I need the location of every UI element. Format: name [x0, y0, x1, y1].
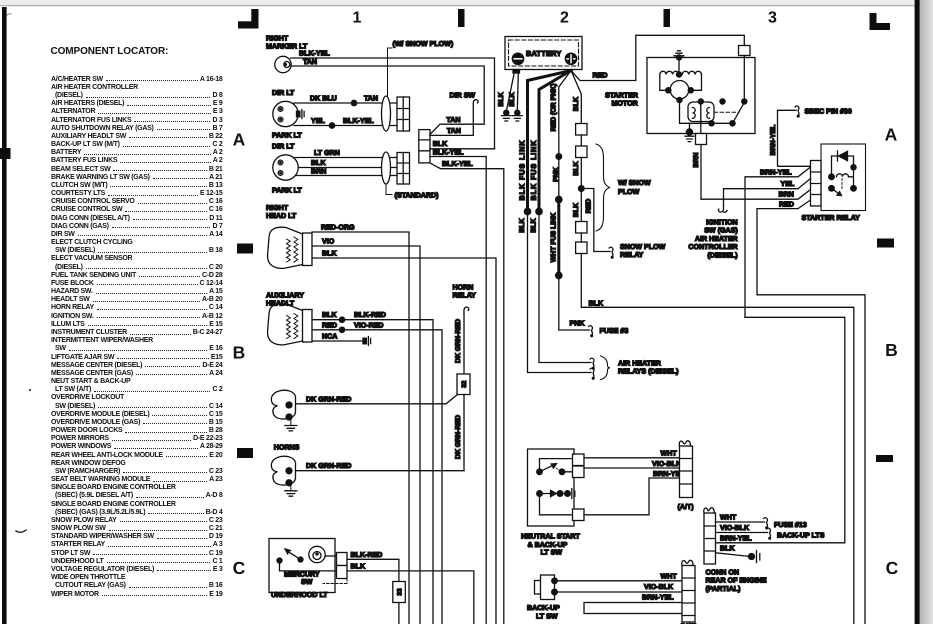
svg-text:BLK: BLK — [573, 203, 580, 217]
svg-text:BLK: BLK — [311, 159, 326, 167]
svg-text:C: C — [233, 558, 246, 578]
svg-text:BRN: BRN — [311, 168, 326, 176]
wire BLK-RED below 33 — [398, 603, 400, 624]
svg-text:PNK: PNK — [553, 167, 560, 182]
svg-text:BLK-YEL: BLK-YEL — [433, 149, 464, 157]
svg-text:B: B — [885, 340, 898, 360]
relay switch — [829, 186, 835, 192]
brace w/ snow plow — [596, 144, 610, 231]
svg-text:AIR HEATER: AIR HEATER — [618, 360, 661, 368]
ground horn 2 — [290, 484, 292, 490]
svg-text:2: 2 — [560, 10, 569, 27]
wire YEL / BLK-YEL — [294, 125, 397, 127]
switch 2 — [537, 491, 543, 497]
svg-text:DIR LT: DIR LT — [272, 89, 295, 97]
svg-text:BLK: BLK — [589, 299, 604, 307]
wire BLK to air heater relay 2 — [528, 212, 592, 373]
wire DK GRN-RED below 32 — [463, 395, 465, 471]
svg-text:BLK-YEL: BLK-YEL — [442, 160, 473, 168]
connector block dir/park upper — [397, 97, 410, 131]
ground starter bottom — [689, 123, 691, 131]
svg-text:DIR LT: DIR LT — [272, 143, 295, 151]
connector 32 — [457, 374, 470, 395]
svg-text:3: 3 — [768, 10, 777, 27]
svg-text:BRN: BRN — [693, 153, 700, 168]
wire BLK long run right — [581, 254, 854, 624]
starter relay connector — [811, 161, 822, 207]
connector underhood — [337, 553, 348, 566]
svg-text:TAN: TAN — [303, 58, 317, 66]
ground starter top — [674, 51, 684, 56]
svg-text:UNDERHOOD LT: UNDERHOOD LT — [271, 591, 328, 599]
svg-text:BRN-YEL: BRN-YEL — [760, 169, 792, 177]
svg-text:VIO-BLK: VIO-BLK — [652, 460, 682, 468]
fusible link WHT — [557, 200, 560, 276]
wire BLK head lt — [312, 258, 496, 624]
starter motor box — [647, 58, 755, 134]
motor armature — [670, 81, 689, 100]
wire BLK-RED mercury — [347, 559, 399, 581]
svg-text:RELAY: RELAY — [453, 292, 477, 300]
hook snow plow relay — [609, 247, 613, 256]
svg-text:C: C — [886, 558, 899, 578]
wire NCA — [312, 340, 363, 342]
svg-text:CONN ON: CONN ON — [706, 569, 740, 577]
svg-text:LT SW: LT SW — [541, 549, 563, 557]
registration tick top 2 — [664, 9, 671, 27]
wire RED into box — [739, 46, 751, 56]
svg-text:BLK: BLK — [509, 92, 516, 106]
left margin tick — [0, 148, 11, 159]
connector block dir sw — [419, 130, 430, 163]
inner tick left AB — [237, 244, 253, 254]
svg-text:PARK LT: PARK LT — [272, 187, 302, 195]
wire BRN starter to relay — [701, 145, 811, 200]
wire BLK to ground — [716, 553, 749, 557]
hook fuse 3 — [589, 326, 593, 335]
svg-text:TAN: TAN — [446, 116, 460, 124]
field coil left — [660, 71, 679, 74]
connector square 4 — [576, 242, 587, 254]
svg-text:SW: SW — [301, 578, 313, 586]
svg-text:RED: RED — [593, 72, 608, 80]
svg-text:BATTERY: BATTERY — [526, 49, 561, 58]
svg-text:RED: RED — [322, 321, 337, 329]
connector A/T — [680, 446, 693, 498]
wire BLK battery chain — [571, 71, 581, 124]
svg-text:W/ SNOW: W/ SNOW — [618, 179, 651, 187]
relay coil — [829, 174, 835, 180]
brace air heater relays — [601, 356, 611, 380]
lamp dir lt — [273, 101, 298, 126]
svg-text:MOTOR: MOTOR — [612, 99, 638, 107]
svg-text:BLK: BLK — [322, 311, 337, 319]
svg-text:WHT: WHT — [720, 514, 737, 522]
inner tick left BC — [237, 448, 253, 458]
lamp right head lt — [303, 233, 313, 266]
svg-text:SW (GAS): SW (GAS) — [704, 227, 738, 235]
svg-text:1: 1 — [353, 10, 362, 27]
switch contact fixed — [720, 99, 725, 104]
wire switch to connector — [280, 563, 337, 571]
svg-text:(DIESEL): (DIESEL) — [707, 252, 738, 260]
battery box — [505, 37, 582, 70]
svg-text:BACK-UP LTS: BACK-UP LTS — [777, 532, 825, 540]
svg-text:BACK-UP: BACK-UP — [527, 604, 560, 612]
svg-text:RELAYS (DIESEL): RELAYS (DIESEL) — [618, 368, 679, 376]
lamp underhood — [309, 546, 325, 562]
coil frame — [660, 75, 702, 91]
fusible link BLK 2 — [539, 71, 571, 212]
svg-text:REAR OF ENGINE: REAR OF ENGINE — [706, 577, 767, 585]
wire RED to snow plow relay — [581, 189, 610, 252]
page speck — [29, 389, 31, 391]
wire BLK-YEL dir sw 1 — [430, 157, 486, 624]
svg-text:RIGHT: RIGHT — [266, 204, 289, 212]
svg-text:32: 32 — [461, 380, 468, 388]
svg-text:BLK: BLK — [351, 562, 366, 570]
svg-text:VIO-BLK: VIO-BLK — [720, 524, 750, 532]
wire sw1 to conn A — [540, 459, 573, 472]
leader (STANDARD) — [386, 184, 392, 195]
connector square 2 — [576, 146, 587, 158]
svg-text:STARTER: STARTER — [605, 91, 638, 99]
svg-text:33: 33 — [396, 588, 403, 596]
handwritten mark left margin — [16, 530, 26, 532]
svg-text:BLK-RED: BLK-RED — [354, 311, 386, 319]
svg-text:YEL: YEL — [311, 117, 325, 125]
wire BLK mercury — [347, 571, 474, 624]
svg-text:BRN-YEL: BRN-YEL — [720, 534, 752, 542]
svg-text:PNK: PNK — [570, 320, 586, 328]
wire TAN to dir sw — [430, 107, 474, 136]
svg-text:TAN: TAN — [364, 95, 378, 103]
page top gray band — [0, 0, 933, 5]
svg-text:DK GRN-RED: DK GRN-RED — [306, 395, 351, 403]
wire BRN-YEL to SBEC pin 30 — [778, 110, 811, 166]
battery plus terminal — [565, 53, 576, 64]
ground battery 2 — [513, 116, 523, 121]
svg-text:CONTROLLER: CONTROLLER — [688, 243, 737, 251]
wire YEL ignition to relay — [724, 179, 811, 206]
hook air heater relay 2 — [590, 368, 594, 377]
lamp park lt — [273, 155, 298, 180]
connector conn on rear of engine — [704, 513, 716, 564]
svg-text:BLK: BLK — [498, 92, 505, 106]
wire node — [580, 135, 582, 146]
svg-text:BLK: BLK — [573, 161, 580, 175]
svg-text:B: B — [233, 343, 246, 363]
inner tick right BC — [876, 455, 893, 462]
ground battery 1 — [502, 116, 512, 121]
corner registration mark L — [870, 13, 877, 30]
wire DK BLU / TAN — [294, 102, 397, 104]
connector block dir/park lower — [397, 153, 410, 185]
svg-text:FUSE #13: FUSE #13 — [774, 521, 807, 529]
wire BRN-YEL back-up (sheathed) — [584, 603, 683, 614]
svg-text:BLK: BLK — [573, 97, 580, 111]
svg-text:WHT FUS LINK: WHT FUS LINK — [551, 213, 558, 262]
svg-text:DK GRN-RED: DK GRN-RED — [455, 319, 462, 363]
svg-text:WHT: WHT — [661, 572, 678, 580]
svg-text:BLK: BLK — [531, 218, 538, 232]
svg-text:RED: RED — [779, 201, 794, 209]
right black bar — [915, 0, 920, 624]
solenoid — [688, 102, 714, 122]
svg-text:VIO: VIO — [322, 238, 335, 246]
wire to field coils — [678, 58, 680, 75]
wire BLK battery ground 1 — [506, 73, 514, 112]
wire TAN marker to dir sw block — [291, 66, 484, 135]
hook to dir sw — [473, 100, 478, 107]
wire WHT to fuse 13 — [716, 521, 765, 523]
wire VIO-BLK back-up — [555, 591, 683, 593]
right gray page edge — [920, 0, 933, 624]
svg-text:FUSE #3: FUSE #3 — [600, 327, 629, 335]
connector squares neutral — [573, 454, 585, 466]
svg-text:RELAY: RELAY — [620, 251, 644, 259]
lamp right marker lt — [275, 56, 291, 72]
hook air heater relay 1 — [590, 358, 594, 367]
wire BRN-YEL run to conn rear engine — [716, 317, 845, 543]
svg-text:HORNS: HORNS — [274, 444, 300, 452]
wire BLK dir sw — [430, 148, 495, 150]
svg-text:VIO-RED: VIO-RED — [354, 321, 384, 329]
wire BRN park — [296, 175, 397, 177]
svg-text:BRN-YEL: BRN-YEL — [770, 125, 777, 156]
underhood lt box — [269, 539, 335, 593]
fusible link BLK 1 — [528, 71, 572, 212]
connector BRN bottom — [696, 134, 707, 145]
wire lamp to connector — [325, 555, 336, 557]
svg-text:(STANDARD): (STANDARD) — [395, 192, 440, 200]
svg-text:STARTER RELAY: STARTER RELAY — [802, 214, 861, 222]
wire DK GRN-RED to 32 — [463, 314, 465, 374]
svg-text:HORN: HORN — [453, 284, 474, 292]
svg-text:BLK: BLK — [322, 250, 337, 258]
svg-text:BLK-YEL: BLK-YEL — [299, 50, 330, 58]
wire DK GRN-RED horn 1 — [296, 395, 458, 404]
horn 2 — [271, 456, 295, 485]
dashed actuator link — [714, 111, 739, 113]
wire BLK park — [298, 167, 397, 169]
svg-text:(PARTIAL): (PARTIAL) — [706, 585, 742, 593]
horn 1 — [271, 390, 295, 419]
ground contact conn — [749, 554, 755, 560]
wire LT GRN — [295, 157, 397, 159]
svg-text:RIGHT: RIGHT — [266, 35, 289, 43]
registration tick top 1 — [458, 9, 465, 27]
starter relay box — [821, 144, 866, 211]
svg-text:RED: RED — [586, 199, 593, 214]
wire BLK to air heater relay 1 — [539, 212, 591, 363]
neutral start box — [528, 449, 575, 526]
wire RED relay long run — [757, 200, 865, 624]
switch arm — [733, 103, 745, 124]
svg-text:RED (OR PNK): RED (OR PNK) — [551, 84, 558, 132]
wire PNK to fuse 3 — [559, 276, 590, 331]
svg-text:TAN: TAN — [447, 127, 461, 135]
svg-text:NCA: NCA — [322, 333, 337, 341]
contact glyph dir lt — [297, 111, 300, 117]
svg-text:LT GRN: LT GRN — [314, 149, 340, 157]
switch 1 — [537, 469, 543, 475]
wire BLK to snow plow — [580, 158, 582, 222]
wire armature down — [680, 100, 733, 123]
svg-text:AUXILIARY: AUXILIARY — [266, 292, 304, 300]
battery minus terminal — [512, 53, 523, 64]
svg-text:HEAD LT: HEAD LT — [266, 212, 297, 220]
svg-text:BLK-RED: BLK-RED — [351, 551, 383, 559]
hook ignition sw — [718, 206, 727, 213]
wire BLK-YEL dir sw 2 — [430, 163, 504, 624]
battery minus tab — [513, 70, 520, 74]
svg-text:BLK-YEL: BLK-YEL — [343, 117, 374, 125]
relay diode branch — [832, 156, 854, 177]
connector 33 — [393, 582, 406, 603]
svg-text:LT SW: LT SW — [536, 613, 558, 621]
connector ellipse w/ snow plow — [382, 96, 391, 131]
svg-text:PLOW: PLOW — [618, 188, 640, 196]
svg-text:WHT: WHT — [661, 449, 678, 457]
lamp auxiliary headlt — [303, 310, 313, 343]
field coil right — [682, 71, 701, 74]
inner tick right AB — [877, 239, 894, 248]
svg-text:DK GRN-RED: DK GRN-RED — [455, 415, 462, 459]
wire WHT back-up — [555, 580, 683, 582]
wire RED-ORG — [312, 232, 409, 624]
hook to horn relay — [464, 307, 469, 314]
svg-text:BLK FUS LINK: BLK FUS LINK — [529, 140, 538, 201]
connector ellipse standard — [382, 152, 391, 184]
svg-text:IGNITION: IGNITION — [706, 218, 738, 226]
wire BRN-YEL neutral — [584, 478, 680, 515]
corner registration mark J — [251, 9, 258, 29]
svg-text:A: A — [885, 125, 898, 145]
wire WHT neutral — [584, 457, 680, 459]
wire BRN-YEL neutral sw to relay — [745, 167, 811, 317]
connector M/T — [682, 566, 695, 623]
svg-text:BLK: BLK — [519, 218, 526, 232]
wire VIO-BLK neutral — [584, 467, 680, 469]
leader (W/ SNOW PLOW) — [388, 48, 393, 96]
svg-text:BLK: BLK — [720, 544, 735, 552]
svg-text:SNOW PLOW: SNOW PLOW — [620, 243, 666, 251]
svg-text:RED-ORG: RED-ORG — [321, 224, 355, 232]
svg-text:(A/T): (A/T) — [678, 503, 695, 511]
svg-text:PARK LT: PARK LT — [272, 132, 302, 140]
wire sw2 to conn C — [540, 494, 573, 515]
svg-text:A: A — [233, 130, 246, 150]
svg-text:DK GRN-RED: DK GRN-RED — [306, 462, 351, 470]
svg-text:SBEC PIN #30: SBEC PIN #30 — [805, 107, 852, 115]
wire VIO — [312, 246, 420, 624]
solenoid to BRN connector — [700, 102, 702, 134]
svg-text:BLK FUS LINK: BLK FUS LINK — [517, 140, 526, 201]
left black bar — [2, 7, 7, 624]
wire BLK-YEL marker to dir sw block — [291, 58, 495, 149]
svg-text:DIR SW: DIR SW — [450, 92, 476, 100]
connector square 1 — [576, 124, 587, 136]
svg-text:BRN: BRN — [779, 191, 794, 199]
wire RED / VIO-RED aux — [312, 330, 442, 624]
wire BLK battery ground 2 — [517, 73, 518, 112]
svg-text:YEL: YEL — [781, 180, 795, 188]
back-up lt sw — [535, 581, 545, 595]
svg-text:DK BLU: DK BLU — [310, 95, 337, 103]
svg-text:(W/ SNOW PLOW): (W/ SNOW PLOW) — [393, 40, 454, 48]
mercury switch — [277, 558, 282, 563]
svg-text:AIR HEATER: AIR HEATER — [695, 235, 738, 243]
wire RED battery to starter motor — [571, 35, 744, 80]
svg-text:BLK: BLK — [433, 140, 448, 148]
ground horn 1 — [290, 418, 292, 425]
svg-text:VIO-BLK: VIO-BLK — [644, 583, 674, 591]
wire RED (OR PNK) — [559, 71, 571, 200]
ground contact NCA — [363, 338, 366, 344]
wire VIO-BLK to back-up lts — [716, 532, 768, 534]
connector square 3 — [576, 222, 587, 234]
wire DK GRN-RED horn 2 — [296, 470, 465, 472]
wire BLK / BLK-RED aux — [312, 320, 433, 624]
svg-text:BRN-YEL: BRN-YEL — [642, 594, 674, 602]
svg-text:NEUTRAL START: NEUTRAL START — [521, 533, 581, 541]
